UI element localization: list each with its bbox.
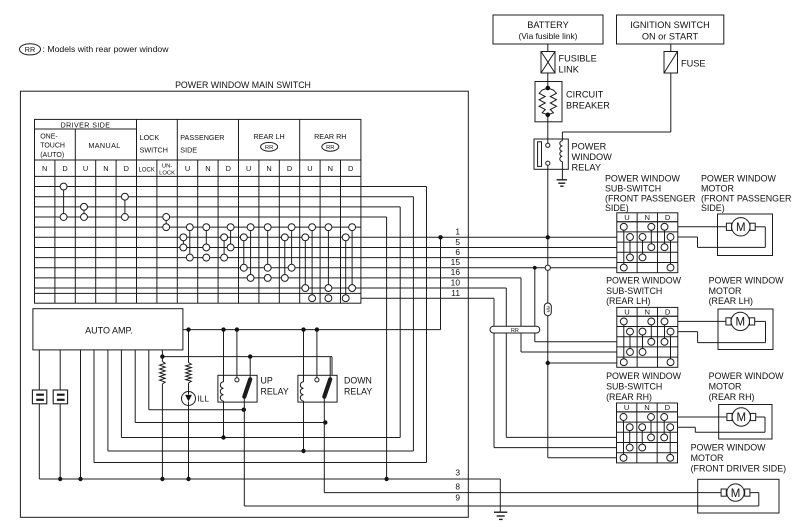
ILL illumination lamp (182, 392, 196, 406)
battery box (493, 15, 603, 44)
svg-text:D: D (62, 164, 67, 173)
svg-text:RR: RR (326, 145, 334, 151)
wire circuit breaker to relay (547, 122, 549, 143)
motor rear LH symbol (726, 318, 731, 325)
wire 3 ground wire (39, 478, 500, 480)
svg-text:D: D (287, 164, 292, 173)
svg-text:1: 1 (455, 227, 460, 237)
svg-text:AUTO AMP.: AUTO AMP. (85, 326, 133, 336)
contact chain col U manual (83, 207, 85, 217)
svg-text:RR: RR (545, 306, 550, 313)
motor front passenger symbol (726, 223, 731, 230)
svg-text:SUB-SWITCH: SUB-SWITCH (606, 286, 662, 296)
svg-text:WINDOW: WINDOW (572, 152, 613, 162)
RR connector pill over rear wires (490, 326, 540, 333)
RR note oval (20, 44, 41, 55)
ground symbol bottom (494, 511, 507, 513)
svg-text:M: M (736, 222, 746, 234)
contact chain col UN-LOCK (165, 217, 167, 227)
svg-text:REAR LH: REAR LH (254, 132, 285, 141)
svg-text:D: D (348, 164, 353, 173)
svg-text:10: 10 (451, 278, 461, 288)
wire 6 (361, 257, 617, 259)
svg-text:BATTERY: BATTERY (527, 20, 569, 30)
svg-text:UP: UP (261, 376, 273, 386)
svg-text:U: U (185, 164, 190, 173)
svg-text:FUSIBLE: FUSIBLE (559, 54, 597, 64)
svg-text:M: M (731, 488, 741, 500)
svg-text:TOUCH: TOUCH (40, 143, 65, 150)
sub-switch table rear LH (617, 307, 678, 367)
svg-text:POWER WINDOW: POWER WINDOW (709, 371, 785, 381)
wire 10 (361, 287, 506, 289)
svg-text:(FRONT PASSENGER: (FRONT PASSENGER (701, 194, 791, 204)
motor rear LH wires (678, 320, 726, 322)
motor front passenger box (718, 214, 773, 256)
contact chains col U passenger (189, 227, 191, 257)
circuit breaker (535, 82, 562, 122)
svg-text:D: D (665, 308, 671, 317)
sub-switch table front passenger (617, 213, 678, 273)
svg-text:RELAY: RELAY (344, 387, 372, 397)
motor front driver box (698, 479, 779, 513)
svg-text:11: 11 (451, 288, 460, 298)
svg-text:15: 15 (451, 257, 461, 267)
ignition switch box (617, 15, 724, 44)
svg-text:(REAR RH): (REAR RH) (606, 392, 652, 402)
contact chain col D one-touch (63, 187, 65, 217)
connector symbol on p1 (32, 390, 46, 404)
svg-text:POWER WINDOW: POWER WINDOW (709, 275, 785, 285)
wire 1 (361, 236, 617, 238)
wire battery to fusible link (547, 44, 549, 52)
svg-text:ONE-: ONE- (40, 133, 58, 140)
svg-text:U: U (307, 164, 312, 173)
rail H1 from auto amp right edge (183, 329, 441, 331)
UP relay coil bottom to nest W_c (221, 435, 225, 439)
contact chains col U rear LH (250, 227, 252, 278)
motor rear RH box (719, 405, 772, 440)
svg-text:SIDE: SIDE (180, 145, 197, 154)
contact chains col D rear RH (351, 227, 353, 288)
svg-text:SWITCH: SWITCH (140, 145, 168, 154)
wire table exit L1 to V1 nest (361, 186, 427, 188)
connector symbol on p2 (53, 390, 67, 404)
relay DOWN box (298, 375, 337, 402)
wire table exit L4 to ground wire V4 (361, 216, 387, 218)
svg-text:POWER WINDOW: POWER WINDOW (606, 371, 682, 381)
RR connector oval on feed wire (544, 303, 551, 316)
relay UP coil (223, 330, 225, 382)
svg-text:N: N (644, 403, 649, 412)
svg-text:POWER WINDOW: POWER WINDOW (701, 174, 777, 184)
svg-text:(REAR LH): (REAR LH) (709, 296, 753, 306)
relay UP contact (235, 378, 239, 382)
wire 15 branch to rear LH row 3 (534, 268, 536, 342)
fusible link (541, 52, 555, 74)
contact chain col N rear LH (267, 227, 269, 268)
svg-text:IGNITION SWITCH: IGNITION SWITCH (630, 20, 710, 30)
power window main switch box (20, 91, 468, 517)
svg-text:(AUTO): (AUTO) (40, 152, 64, 159)
svg-text:POWER WINDOW: POWER WINDOW (691, 443, 767, 453)
wire fusible link to circuit breaker (547, 73, 549, 82)
H1 junction dots (221, 327, 225, 331)
svg-text:DOWN: DOWN (344, 376, 372, 386)
relay DOWN contact (315, 378, 319, 382)
power window relay box (534, 139, 568, 169)
fuse (670, 44, 672, 52)
power window relay ground (557, 179, 567, 181)
DOWN relay coil bottom to nest W_d (301, 449, 305, 453)
motor front driver symbol (721, 489, 726, 496)
power window relay contact bar (538, 142, 542, 167)
svg-text:U: U (246, 164, 251, 173)
svg-text:UN-: UN- (162, 164, 173, 170)
svg-text:LOCK: LOCK (139, 168, 155, 174)
svg-text:D: D (124, 164, 129, 173)
svg-text:MOTOR: MOTOR (691, 453, 724, 463)
svg-text:U: U (624, 213, 629, 222)
relay DOWN coil (303, 330, 305, 382)
svg-text:LOCK: LOCK (140, 133, 160, 142)
svg-text:CIRCUIT: CIRCUIT (566, 90, 604, 100)
svg-text:U: U (83, 164, 88, 173)
svg-text:M: M (736, 317, 746, 329)
svg-text:FUSE: FUSE (681, 59, 706, 69)
motor rear RH symbol (727, 413, 732, 420)
svg-text:: Models with rear power windo: : Models with rear power window (43, 44, 170, 54)
wire table exit L3 to V3 nest (361, 206, 400, 208)
relay UP box (218, 375, 257, 402)
svg-text:D: D (665, 403, 671, 412)
svg-text:M: M (737, 412, 747, 424)
motor front driver wires (750, 492, 759, 494)
power window relay contact terminals (546, 143, 550, 147)
svg-text:SUB-SWITCH: SUB-SWITCH (606, 381, 662, 391)
svg-text:ON or START: ON or START (642, 32, 699, 42)
svg-text:DRIVER SIDE: DRIVER SIDE (61, 122, 111, 130)
svg-text:N: N (42, 164, 47, 173)
svg-text:D: D (226, 164, 231, 173)
svg-text:RELAY: RELAY (572, 163, 601, 173)
svg-text:RR: RR (511, 328, 519, 334)
motor front passenger wires (678, 226, 727, 228)
svg-text:POWER WINDOW: POWER WINDOW (606, 275, 682, 285)
svg-text:ILL: ILL (198, 395, 210, 404)
switch contact table grid (35, 119, 361, 303)
svg-text:(Via fusible link): (Via fusible link) (519, 31, 578, 41)
svg-text:6: 6 (455, 247, 460, 257)
rail H2 resistor to relay arms (162, 356, 332, 358)
svg-text:SIDE): SIDE) (605, 203, 629, 213)
svg-text:(REAR RH): (REAR RH) (709, 392, 755, 402)
contact chains col D rear LH (291, 227, 293, 268)
motor rear RH wires (678, 416, 727, 418)
sub-switch table rear RH (617, 403, 678, 463)
svg-text:LOCK: LOCK (159, 171, 175, 177)
svg-text:U: U (624, 403, 629, 412)
resistor R2 (188, 330, 190, 363)
wire 16 (361, 277, 521, 279)
auto amp box (33, 309, 183, 350)
svg-text:5: 5 (455, 237, 460, 247)
ILL lamp wire to ground wire (188, 406, 190, 480)
resistor R1 (161, 357, 163, 362)
contact chain col N rear RH (327, 227, 329, 288)
svg-text:N: N (205, 164, 210, 173)
feed wire junction to rear LH row 5 (546, 361, 550, 365)
svg-text:N: N (645, 308, 650, 317)
svg-text:PASSENGER: PASSENGER (180, 133, 224, 142)
contact chains col U rear RH (311, 227, 313, 298)
wire 5 (361, 246, 617, 248)
contact chain col N passenger (205, 227, 207, 247)
svg-text:POWER WINDOW: POWER WINDOW (605, 174, 681, 184)
svg-text:N: N (328, 164, 333, 173)
svg-text:BREAKER: BREAKER (566, 101, 610, 111)
wire fuse to relay coil (670, 73, 672, 132)
power window relay coil (560, 141, 563, 162)
wire 15 (361, 267, 617, 269)
svg-text:U: U (624, 308, 629, 317)
svg-text:POWER WINDOW MAIN SWITCH: POWER WINDOW MAIN SWITCH (175, 80, 311, 90)
wire 11 (361, 297, 494, 299)
main feed wire from relay down right side (547, 165, 549, 303)
svg-text:D: D (665, 213, 671, 222)
svg-text:POWER: POWER (572, 142, 607, 152)
contact chains col D passenger (230, 227, 232, 247)
svg-text:RELAY: RELAY (261, 387, 289, 397)
svg-text:N: N (103, 164, 108, 173)
svg-text:(REAR LH): (REAR LH) (606, 296, 650, 306)
svg-text:REAR RH: REAR RH (314, 132, 346, 141)
svg-text:SIDE): SIDE) (701, 203, 725, 213)
svg-text:RR: RR (265, 145, 273, 151)
svg-text:8: 8 (455, 481, 460, 491)
motor rear LH box (718, 309, 773, 350)
auto amp pin p9 wire to rail H2 junction (161, 350, 163, 357)
svg-text:MOTOR: MOTOR (701, 184, 734, 194)
svg-text:N: N (645, 213, 650, 222)
svg-text:MANUAL: MANUAL (88, 141, 120, 150)
auto amp pin p7 wire to DOWN relay arm (134, 350, 136, 423)
wire table exit L2 to V2 nest (361, 196, 414, 198)
svg-text:SUB-SWITCH: SUB-SWITCH (605, 184, 661, 194)
auto amp pin p8 wire to UP relay arm (148, 350, 150, 410)
svg-text:LINK: LINK (559, 65, 580, 75)
svg-text:RR: RR (25, 45, 35, 54)
svg-text:(FRONT DRIVER SIDE): (FRONT DRIVER SIDE) (691, 464, 787, 474)
svg-text:(FRONT PASSENGER: (FRONT PASSENGER (605, 194, 695, 204)
UP relay arm wire down to wire 9 (243, 402, 245, 506)
auto amp pin wires p1 p2 p3 to ground wire (38, 350, 40, 479)
contact chain col D manual (124, 197, 126, 217)
svg-text:MOTOR: MOTOR (709, 381, 742, 391)
svg-text:MOTOR: MOTOR (709, 286, 742, 296)
DOWN relay arm wire down to wire 8 (323, 402, 325, 493)
svg-text:16: 16 (451, 267, 461, 277)
svg-text:3: 3 (455, 468, 460, 478)
svg-text:9: 9 (455, 493, 460, 503)
svg-text:N: N (266, 164, 271, 173)
